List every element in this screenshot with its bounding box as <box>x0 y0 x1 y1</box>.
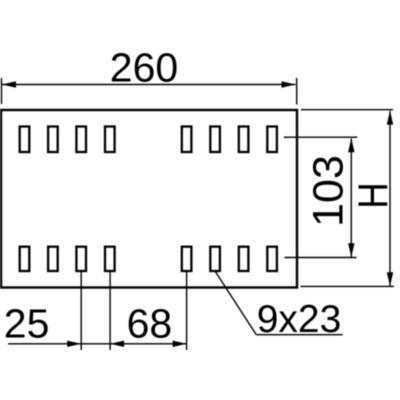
svg-text:25: 25 <box>4 301 50 347</box>
svg-text:103: 103 <box>305 155 353 227</box>
svg-text:68: 68 <box>127 301 173 347</box>
svg-text:9x23: 9x23 <box>257 298 342 341</box>
svg-text:260: 260 <box>110 44 178 90</box>
svg-text:H: H <box>350 182 397 209</box>
